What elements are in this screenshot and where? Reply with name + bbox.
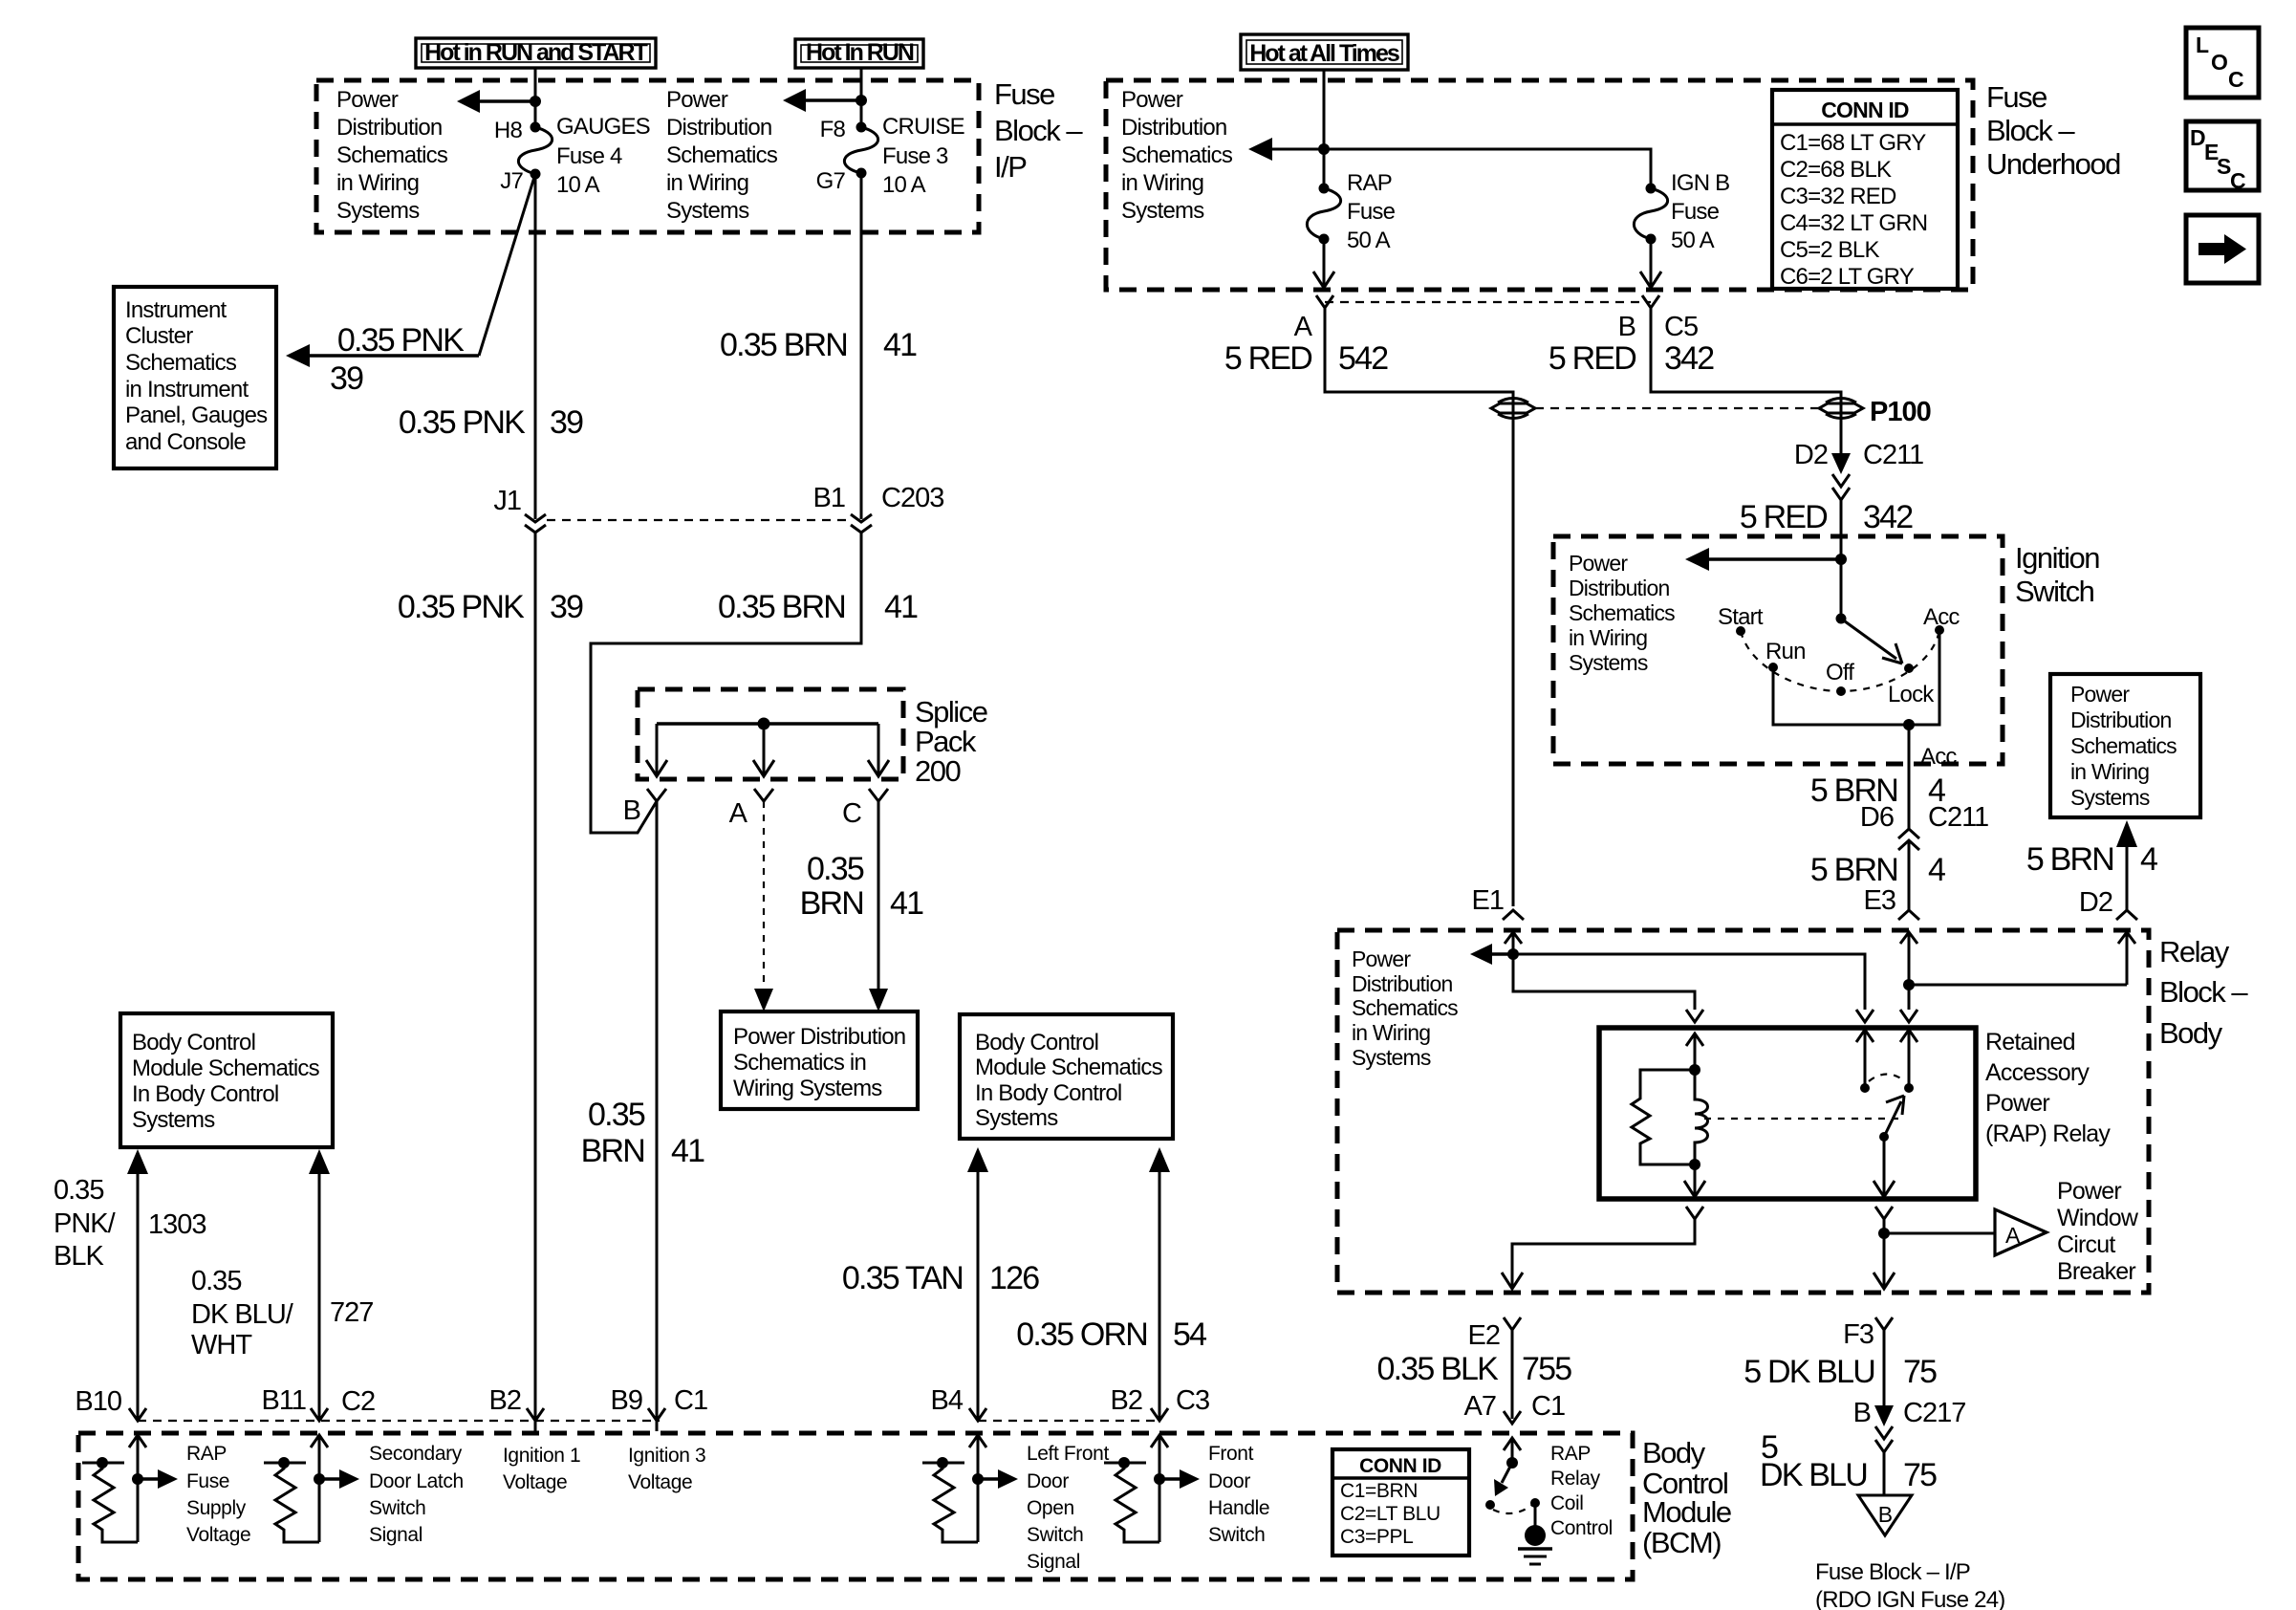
wire: Acc output down — [1908, 725, 1911, 829]
svg-text:41: 41 — [883, 327, 917, 363]
label 0.35 DK BLU/ WHT 727 — [191, 1266, 373, 1360]
svg-text:B1: B1 — [813, 483, 845, 513]
wire: output down to F3 — [1883, 1219, 1886, 1286]
wire: ignition switch pole — [1840, 559, 1843, 619]
relay box: Retained Accessory Power (RAP) Relay — [1599, 1028, 1976, 1199]
label Ignition 3 Voltage — [628, 1445, 705, 1493]
header box "Hot in RUN" — [795, 39, 923, 68]
fuse RAP 50A (symbol) — [1307, 184, 1340, 245]
svg-text:C203: C203 — [881, 483, 943, 513]
label CRUISE Fuse 3 10 A — [882, 114, 964, 198]
svg-text:Power: Power — [1121, 87, 1183, 113]
svg-text:Start: Start — [1718, 604, 1764, 630]
wire: 41 BRN vertical from G7 to C203 — [860, 173, 863, 519]
label 0.35 PNK 39 (above J1) — [399, 404, 583, 441]
ignition switch wiper arm (arrow to Lock/Acc) — [1841, 619, 1896, 659]
svg-text:Signal: Signal — [1027, 1551, 1080, 1573]
svg-text:C1: C1 — [1531, 1391, 1565, 1422]
svg-text:(BCM): (BCM) — [1642, 1526, 1721, 1559]
svg-text:Wiring Systems: Wiring Systems — [733, 1076, 882, 1101]
label 0.35 PNK 39 (below J1) — [398, 589, 583, 625]
svg-text:Hot in RUN and START: Hot in RUN and START — [424, 39, 647, 66]
coil (relay) — [1695, 1070, 1708, 1164]
svg-text:Instrument: Instrument — [125, 297, 227, 323]
svg-text:Schematics in: Schematics in — [733, 1050, 866, 1076]
pass-through dashed line P100 — [1535, 407, 1819, 409]
connector below relay (output) — [1875, 1207, 1893, 1219]
CONN ID table (BCM) — [1332, 1449, 1469, 1556]
wire: splice drop A with arrow — [763, 724, 766, 774]
label 0.35 BRN 41 (above C203) — [720, 327, 917, 363]
svg-text:B4: B4 — [931, 1385, 964, 1416]
ground (RAP relay coil control) — [1518, 1498, 1552, 1564]
svg-text:Circut: Circut — [2057, 1231, 2115, 1258]
wire: splice drop C with arrow — [877, 724, 880, 774]
connector B1 at C203 — [851, 514, 872, 533]
svg-text:Distribution: Distribution — [1121, 115, 1226, 141]
svg-text:Cluster: Cluster — [125, 323, 193, 349]
node: output junction dot (Acc) — [1903, 719, 1915, 730]
wire: E2 to BCM A7 — [1511, 1330, 1514, 1419]
wire: arrow to power distribution (mid) — [800, 98, 861, 101]
wire: BRN 41 from C203 jog to splice pack B — [591, 533, 861, 833]
svg-text:39: 39 — [550, 589, 583, 625]
svg-text:C1: C1 — [674, 1385, 707, 1416]
svg-text:Off: Off — [1826, 660, 1854, 685]
label Ignition 1 Voltage — [503, 1445, 580, 1493]
svg-text:O: O — [2211, 50, 2227, 75]
svg-text:Acc: Acc — [1923, 604, 1960, 630]
svg-text:Fuse: Fuse — [994, 77, 1054, 111]
connector pin A — [1316, 295, 1333, 308]
label Relay Block - Body — [2159, 935, 2248, 1050]
svg-text:Power: Power — [666, 87, 728, 113]
svg-text:75: 75 — [1903, 1457, 1937, 1493]
node: junction to circuit breaker — [1878, 1228, 1890, 1239]
svg-text:Block –: Block – — [994, 114, 1083, 147]
label 0.35 TAN 126 — [842, 1260, 1039, 1296]
svg-text:CONN ID: CONN ID — [1359, 1455, 1441, 1477]
wire: RED 342 down and jog right to grommet P100 — [1651, 308, 1841, 457]
svg-text:5 RED: 5 RED — [1740, 499, 1827, 535]
svg-text:342: 342 — [1863, 499, 1913, 535]
svg-text:Switch: Switch — [1208, 1524, 1265, 1546]
svg-text:D2: D2 — [1794, 440, 1828, 470]
svg-text:342: 342 — [1664, 340, 1714, 377]
BCM input network B4 (left front door open switch) — [922, 1435, 1018, 1542]
connector face line (dashed, right group) — [978, 1420, 1159, 1422]
svg-text:Body: Body — [1642, 1436, 1706, 1469]
label Front Door Handle Switch — [1208, 1443, 1269, 1546]
svg-text:0.35 BRN: 0.35 BRN — [718, 589, 845, 625]
wire: B2/C3 up-arrow to BCM schematics box — [1159, 1168, 1161, 1419]
label 0.35 BLK 755 — [1377, 1351, 1572, 1387]
svg-text:in Wiring: in Wiring — [666, 170, 748, 196]
connector E2 below relay block — [1504, 1317, 1521, 1330]
svg-text:Schematics: Schematics — [125, 350, 237, 376]
svg-text:0.35: 0.35 — [54, 1175, 103, 1206]
wire: D2 entry arrow — [2118, 932, 2135, 944]
connector pin B4 — [969, 1408, 986, 1421]
connector face line below underhood block — [1325, 301, 1651, 303]
svg-text:F8: F8 — [820, 117, 846, 142]
svg-text:Door: Door — [1208, 1470, 1250, 1492]
svg-text:RAP: RAP — [1550, 1443, 1591, 1465]
svg-text:Ignition: Ignition — [2015, 541, 2099, 575]
svg-text:GAUGES: GAUGES — [556, 114, 650, 140]
solid box: Body Control Module Schematics (left) — [120, 1013, 333, 1147]
svg-text:1303: 1303 — [148, 1209, 206, 1240]
svg-text:Hot In RUN: Hot In RUN — [806, 39, 914, 66]
dashed block: Ignition Switch — [1553, 536, 2003, 764]
LOC nav box — [2186, 28, 2259, 98]
svg-text:Module Schematics: Module Schematics — [975, 1055, 1163, 1080]
wire: 39 PNK vertical from J7 to C203 — [534, 174, 537, 519]
svg-text:126: 126 — [989, 1260, 1039, 1296]
svg-text:C211: C211 — [1863, 440, 1923, 470]
wire: BRN 41 from splice B down to BCM B9 — [656, 801, 659, 1431]
svg-text:C211: C211 — [1928, 802, 1988, 833]
svg-text:75: 75 — [1903, 1354, 1937, 1390]
label 0.35 BRN 41 (to B9) — [581, 1097, 704, 1169]
svg-text:755: 755 — [1522, 1351, 1571, 1387]
connector pin B11/C2 — [311, 1408, 328, 1421]
dashed block: Body Control Module (BCM) — [78, 1433, 1633, 1579]
svg-text:200: 200 — [915, 754, 961, 788]
node: junction dot on gauges feed — [530, 96, 541, 107]
svg-text:Lock: Lock — [1888, 682, 1935, 707]
svg-text:4: 4 — [2140, 841, 2157, 878]
svg-text:Schematics: Schematics — [2070, 733, 2177, 758]
connector pin B / C5 — [1642, 295, 1659, 308]
label 5 BRN 4 (above E3) — [1810, 852, 1945, 888]
label Retained Accessory Power (RAP) Relay — [1985, 1029, 2111, 1147]
svg-text:Signal: Signal — [369, 1524, 422, 1546]
svg-text:PNK/: PNK/ — [54, 1208, 117, 1239]
svg-text:in Instrument: in Instrument — [125, 377, 249, 402]
svg-text:C2=68 BLK: C2=68 BLK — [1780, 157, 1892, 183]
svg-text:RAP: RAP — [186, 1443, 227, 1465]
svg-text:P100: P100 — [1870, 397, 1931, 427]
wire: RED 542 down and jog right to grommet — [1325, 308, 1513, 906]
svg-text:50 A: 50 A — [1671, 228, 1715, 253]
circuit breaker A (triangle) — [1995, 1209, 2047, 1255]
svg-text:DK BLU/: DK BLU/ — [191, 1299, 294, 1330]
connector pin C of splice — [869, 789, 888, 801]
wire: BRN 41 from C to power distribution box — [877, 801, 880, 992]
svg-text:Module: Module — [1642, 1495, 1731, 1529]
svg-text:5 BRN: 5 BRN — [1810, 852, 1897, 888]
svg-text:C4=32 LT GRN: C4=32 LT GRN — [1780, 210, 1927, 236]
relay fixed contact left — [1856, 1030, 1874, 1042]
label Body Control Module (BCM) — [1642, 1436, 1731, 1559]
connector pin B9/C1 — [648, 1408, 665, 1421]
svg-text:In Body Control: In Body Control — [132, 1081, 278, 1107]
svg-text:Systems: Systems — [1121, 198, 1204, 224]
grommet (left) — [1491, 399, 1535, 419]
wire: arrow to power distribution (relay block) — [1487, 952, 1513, 955]
svg-text:Block –: Block – — [1986, 114, 2075, 147]
svg-text:Fuse Block – I/P: Fuse Block – I/P — [1815, 1559, 1970, 1585]
solid box: Instrument Cluster Schematics — [114, 287, 276, 468]
node: junction dot at ignition feed — [1835, 554, 1847, 565]
svg-text:Retained: Retained — [1985, 1029, 2075, 1055]
svg-text:0.35: 0.35 — [588, 1097, 645, 1133]
dashed linkage coil to armature — [1704, 1118, 1904, 1120]
svg-text:Power: Power — [1352, 946, 1411, 971]
label IGN B Fuse 50 A — [1671, 170, 1729, 253]
svg-text:BRN: BRN — [581, 1133, 644, 1169]
text: Power Distribution Schematics in Wiring Systems (left) — [336, 87, 448, 224]
svg-text:Schematics: Schematics — [1569, 600, 1675, 625]
wire: dashed wire from A to power distribution box — [763, 801, 765, 992]
fuse F4 GAUGES (symbol) — [518, 122, 552, 180]
svg-text:Control: Control — [1550, 1517, 1613, 1539]
dashed arc between contacts — [1869, 1075, 1905, 1082]
dashed block: Fuse Block - I/P — [316, 80, 979, 232]
svg-text:in Wiring: in Wiring — [336, 170, 419, 196]
solid box: Body Control Module Schematics (mid) — [960, 1014, 1173, 1139]
text: Power Distribution Schematics in Wiring Systems (underhood) — [1121, 87, 1233, 224]
header box "Hot in RUN and START" — [416, 38, 656, 68]
svg-text:C5=2 BLK: C5=2 BLK — [1780, 237, 1879, 263]
contact Off — [1836, 686, 1846, 696]
svg-text:Distribution: Distribution — [1352, 971, 1452, 996]
svg-text:Distribution: Distribution — [1569, 576, 1669, 600]
svg-text:5 RED: 5 RED — [1224, 340, 1311, 377]
svg-text:Systems: Systems — [336, 198, 420, 224]
svg-text:D6: D6 — [1860, 802, 1894, 833]
svg-text:Ignition 1: Ignition 1 — [503, 1445, 580, 1467]
BCM input network B10 (RAP fuse supply voltage) — [82, 1435, 178, 1542]
svg-text:Switch: Switch — [369, 1497, 425, 1519]
label Left Front Door Open Switch Signal — [1027, 1443, 1109, 1573]
svg-text:E1: E1 — [1472, 885, 1504, 916]
svg-text:Accessory: Accessory — [1985, 1059, 2090, 1086]
svg-text:0.35 PNK: 0.35 PNK — [398, 589, 525, 625]
wire: E3 entry arrow — [1900, 932, 1917, 944]
svg-text:in Wiring: in Wiring — [1569, 625, 1647, 650]
svg-text:J7: J7 — [500, 168, 523, 194]
svg-text:D: D — [2190, 125, 2205, 150]
svg-text:B2: B2 — [489, 1385, 521, 1416]
svg-text:Voltage: Voltage — [503, 1471, 567, 1493]
svg-text:Systems: Systems — [2070, 785, 2150, 810]
wire: splice drop B with arrow — [656, 724, 659, 774]
wire: B11 up-arrow to BCM schematics box — [318, 1168, 321, 1419]
svg-text:C1=BRN: C1=BRN — [1340, 1480, 1418, 1502]
svg-text:10 A: 10 A — [882, 172, 926, 198]
svg-text:B: B — [1853, 1398, 1871, 1428]
svg-text:C5: C5 — [1664, 312, 1698, 342]
svg-text:DK BLU: DK BLU — [1760, 1457, 1867, 1493]
svg-text:Acc: Acc — [1920, 744, 1957, 770]
wire: armature output exits relay box — [1883, 1137, 1886, 1194]
svg-text:5 DK BLU: 5 DK BLU — [1744, 1354, 1874, 1390]
svg-text:E3: E3 — [1864, 885, 1895, 916]
svg-text:Power: Power — [336, 87, 399, 113]
label GAUGES Fuse 4 10 A — [556, 114, 650, 198]
svg-text:B2: B2 — [1111, 1385, 1142, 1416]
node: coil bottom dot — [1689, 1159, 1700, 1170]
svg-text:Systems: Systems — [132, 1107, 215, 1133]
svg-text:Systems: Systems — [666, 198, 749, 224]
connector J1 at C203 — [525, 514, 546, 533]
svg-text:CONN ID: CONN ID — [1821, 98, 1909, 122]
label 0.35 ORN 54 — [1016, 1316, 1206, 1353]
svg-text:Door Latch: Door Latch — [369, 1470, 464, 1492]
svg-text:Switch: Switch — [2015, 575, 2094, 608]
svg-text:Power: Power — [2070, 682, 2130, 707]
svg-text:Block –: Block – — [2159, 975, 2248, 1009]
svg-text:Run: Run — [1765, 639, 1806, 664]
connector D6/C211 — [1898, 829, 1919, 850]
text: Power Distribution Schematics in Wiring Systems (ignition) — [1569, 551, 1675, 675]
svg-text:RAP: RAP — [1347, 170, 1392, 196]
svg-text:(RDO IGN Fuse 24): (RDO IGN Fuse 24) — [1815, 1587, 2004, 1610]
connector face line (dashed, left group) — [138, 1420, 660, 1422]
wire: feed from Hot in RUN and START down — [534, 68, 537, 127]
svg-text:Distribution: Distribution — [336, 115, 442, 141]
svg-text:54: 54 — [1173, 1316, 1206, 1353]
svg-text:Systems: Systems — [1569, 650, 1648, 675]
svg-text:Fuse: Fuse — [186, 1470, 229, 1492]
text: Power Distribution Schematics in Wiring Systems (mid) — [666, 87, 778, 224]
node: junction dot on cruise feed — [856, 95, 867, 106]
svg-text:Power: Power — [1569, 551, 1628, 576]
svg-text:Body: Body — [2159, 1016, 2223, 1050]
svg-text:39: 39 — [550, 404, 583, 441]
label Fuse Block - I/P — [994, 77, 1083, 184]
label 5 BRN 4 (D2) — [2026, 841, 2157, 878]
svg-text:A: A — [2005, 1223, 2021, 1248]
label 5 RED 342 — [1549, 340, 1714, 377]
label RAP Relay Coil Control — [1550, 1443, 1613, 1539]
svg-text:C3=32 RED: C3=32 RED — [1780, 184, 1896, 209]
svg-text:Fuse 3: Fuse 3 — [882, 143, 948, 169]
label Secondary Door Latch Switch Signal — [369, 1443, 464, 1546]
svg-text:Door: Door — [1027, 1470, 1069, 1492]
dashed block: Fuse Block - Underhood — [1106, 80, 1973, 290]
svg-text:BRN: BRN — [800, 885, 863, 922]
label RAP Fuse Supply Voltage — [186, 1443, 250, 1546]
node: coil top dot — [1689, 1064, 1700, 1076]
svg-text:Distribution: Distribution — [2070, 707, 2171, 732]
contact Acc — [1935, 625, 1944, 635]
svg-text:Panel, Gauges: Panel, Gauges — [125, 402, 268, 428]
svg-text:E2: E2 — [1468, 1320, 1500, 1351]
svg-text:H8: H8 — [494, 118, 523, 143]
svg-text:D2: D2 — [2079, 887, 2112, 918]
connector line C203 (dashed) — [547, 519, 851, 521]
connector A7/C1 at BCM — [1504, 1411, 1521, 1424]
wire: PNK 39 continues to BCM B2 — [534, 533, 537, 1431]
svg-text:0.35 BLK: 0.35 BLK — [1377, 1351, 1500, 1387]
svg-text:and Console: and Console — [125, 429, 246, 455]
svg-text:IGN B: IGN B — [1671, 170, 1729, 196]
svg-text:Secondary: Secondary — [369, 1443, 463, 1465]
relay armature — [1879, 1132, 1889, 1142]
svg-text:B: B — [623, 795, 640, 826]
svg-text:WHT: WHT — [191, 1330, 252, 1360]
BCM input network B2/C3 (front door handle switch) — [1104, 1435, 1200, 1542]
wire: BRN 4 D2 up-arrow into power distribution box — [2126, 847, 2129, 910]
wire: Run contact to output — [1773, 630, 1939, 725]
svg-text:Body Control: Body Control — [975, 1030, 1098, 1055]
label 0.35 BRN 41 (below C203) — [718, 589, 918, 625]
svg-text:C6=2 LT GRY: C6=2 LT GRY — [1780, 264, 1915, 290]
wire: coil return jog to E2 — [1512, 1219, 1695, 1286]
solid box: Power Distribution Schematics in Wiring Systems (bottom mid) — [721, 1012, 918, 1109]
node: E1 junction dot — [1507, 948, 1519, 960]
connector below relay (coil return) — [1686, 1207, 1703, 1219]
node: junction dot on feed — [1318, 143, 1330, 155]
wire: RED 342 to ignition switch — [1840, 498, 1843, 559]
svg-text:4: 4 — [1928, 852, 1945, 888]
relay coil branch entry arrow — [1686, 1033, 1703, 1046]
svg-text:in Wiring: in Wiring — [1121, 170, 1203, 196]
svg-text:0.35 ORN: 0.35 ORN — [1016, 1316, 1147, 1353]
svg-text:in Wiring: in Wiring — [1352, 1020, 1430, 1045]
label Fuse Block - I/P (RDO IGN Fuse 24) — [1815, 1559, 2004, 1610]
svg-text:0.35: 0.35 — [807, 851, 864, 887]
svg-text:S: S — [2217, 154, 2231, 179]
svg-text:Underhood: Underhood — [1986, 147, 2120, 181]
wire: arrow to power distribution (ignition) — [1702, 557, 1841, 560]
svg-text:I/P: I/P — [994, 150, 1027, 184]
svg-text:Supply: Supply — [186, 1497, 247, 1519]
connector D2/C211 below P100 — [1831, 453, 1851, 500]
label 5 DK BLU 75 (lower) — [1760, 1429, 1937, 1493]
label 5 DK BLU 75 — [1744, 1354, 1937, 1390]
connector pin B2 — [527, 1408, 544, 1421]
label Fuse Block - Underhood — [1986, 80, 2120, 181]
svg-text:39: 39 — [330, 360, 363, 397]
dashed arc through switch contacts — [1741, 630, 1939, 691]
svg-text:G7: G7 — [816, 168, 846, 194]
svg-text:(RAP) Relay: (RAP) Relay — [1985, 1120, 2111, 1147]
contact Lock — [1904, 664, 1914, 673]
wire: E1 entry arrow — [1505, 932, 1522, 944]
svg-text:Distribution: Distribution — [666, 115, 771, 141]
svg-text:0.35 TAN: 0.35 TAN — [842, 1260, 963, 1296]
svg-text:41: 41 — [890, 885, 923, 922]
solid box: Power Distribution Schematics in Wiring Systems (right) — [2050, 674, 2200, 817]
connector pin A of splice — [754, 789, 773, 801]
connector E3 — [1898, 910, 1919, 920]
wire: arrow to power distribution (left) — [474, 99, 535, 102]
contact Run — [1768, 663, 1778, 672]
svg-text:C3: C3 — [1176, 1385, 1209, 1416]
svg-text:Fuse: Fuse — [1347, 199, 1396, 225]
connector E1 — [1503, 910, 1524, 920]
svg-text:Relay: Relay — [1550, 1468, 1601, 1490]
relay fixed contact right — [1900, 1030, 1917, 1042]
header box "Hot at All Times" — [1241, 34, 1408, 70]
svg-text:41: 41 — [884, 589, 918, 625]
svg-text:Power: Power — [1985, 1090, 2049, 1117]
svg-text:B: B — [1878, 1502, 1893, 1527]
svg-text:Voltage: Voltage — [628, 1471, 692, 1493]
svg-text:A7: A7 — [1464, 1391, 1496, 1422]
svg-text:Open: Open — [1027, 1497, 1074, 1519]
svg-text:A: A — [1294, 312, 1313, 342]
connector pin B of splice — [647, 789, 666, 801]
svg-text:Fuse: Fuse — [1986, 80, 2047, 114]
label 5 BRN 4 (above D6) — [1810, 772, 1945, 809]
wire: splice bus bar — [657, 722, 878, 725]
dashed block: Splice Pack 200 — [638, 689, 903, 779]
